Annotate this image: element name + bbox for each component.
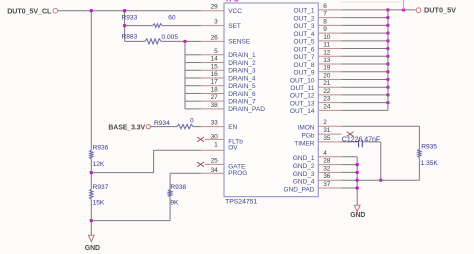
svg-text:9K: 9K	[170, 200, 179, 207]
svg-text:29: 29	[211, 4, 219, 11]
svg-text:DRAIN_5: DRAIN_5	[228, 83, 256, 90]
svg-text:PROG: PROG	[228, 170, 247, 177]
svg-text:DUT0_5V_CL: DUT0_5V_CL	[7, 7, 52, 15]
svg-text:GND_4: GND_4	[293, 179, 315, 186]
svg-text:22: 22	[323, 88, 331, 95]
svg-text:R936: R936	[93, 145, 109, 152]
svg-text:DRAIN_1: DRAIN_1	[228, 52, 256, 59]
svg-text:32: 32	[323, 165, 331, 172]
svg-text:OUT_8: OUT_8	[294, 62, 315, 69]
svg-text:TPS: TPS	[225, 0, 239, 3]
svg-text:36: 36	[323, 173, 331, 180]
svg-text:4: 4	[323, 150, 327, 157]
svg-text:GND_PAD: GND_PAD	[284, 186, 315, 193]
svg-text:16: 16	[211, 71, 219, 78]
svg-text:OUT_9: OUT_9	[294, 70, 315, 77]
svg-text:OUT_5: OUT_5	[294, 39, 315, 46]
svg-text:35: 35	[323, 135, 331, 142]
svg-text:R934: R934	[154, 120, 170, 127]
svg-text:34: 34	[211, 167, 219, 174]
svg-text:R937: R937	[93, 184, 109, 191]
svg-text:VCC: VCC	[228, 8, 242, 15]
svg-text:60: 60	[168, 15, 176, 22]
svg-text:19: 19	[323, 65, 331, 72]
svg-text:PGb: PGb	[301, 133, 314, 140]
svg-text:28: 28	[323, 158, 331, 165]
svg-text:37: 37	[323, 181, 331, 188]
svg-text:31: 31	[323, 127, 331, 134]
svg-text:17: 17	[211, 79, 219, 86]
svg-text:5: 5	[214, 48, 218, 55]
svg-text:13: 13	[323, 57, 331, 64]
svg-text:38: 38	[211, 102, 219, 109]
svg-text:OUT_12: OUT_12	[290, 93, 315, 100]
svg-text:10: 10	[323, 34, 331, 41]
svg-text:27: 27	[211, 94, 219, 101]
svg-text:12: 12	[323, 49, 331, 56]
svg-text:R938: R938	[170, 184, 186, 191]
svg-text:15: 15	[211, 63, 219, 70]
svg-text:DRAIN_6: DRAIN_6	[228, 91, 256, 98]
svg-text:14: 14	[211, 56, 219, 63]
svg-text:GND_1: GND_1	[293, 155, 315, 162]
svg-text:OUT_10: OUT_10	[290, 77, 315, 84]
svg-text:OUT_11: OUT_11	[290, 85, 314, 92]
svg-text:OUT_2: OUT_2	[294, 15, 315, 22]
svg-text:47nF: 47nF	[364, 137, 380, 144]
svg-text:OUT_1: OUT_1	[294, 8, 315, 15]
svg-text:DRAIN_3: DRAIN_3	[228, 68, 256, 75]
svg-text:OV: OV	[228, 145, 238, 152]
svg-text:23: 23	[323, 96, 331, 103]
svg-text:SENSE: SENSE	[228, 39, 251, 46]
svg-text:GND: GND	[85, 245, 100, 252]
svg-text:DRAIN_4: DRAIN_4	[228, 75, 256, 82]
svg-text:DRAIN_7: DRAIN_7	[228, 98, 256, 105]
svg-text:9: 9	[323, 26, 327, 33]
svg-text:DRAIN_2: DRAIN_2	[228, 60, 256, 67]
svg-text:OUT_3: OUT_3	[294, 23, 315, 30]
svg-text:R933: R933	[122, 15, 138, 22]
svg-text:DRAIN_PAD: DRAIN_PAD	[228, 106, 265, 113]
svg-text:30: 30	[211, 133, 219, 140]
svg-text:12K: 12K	[93, 161, 105, 168]
svg-text:25: 25	[211, 158, 219, 165]
svg-text:IMON: IMON	[298, 125, 315, 132]
svg-text:8: 8	[323, 18, 327, 25]
svg-text:C1226: C1226	[342, 137, 363, 144]
svg-text:OUT_4: OUT_4	[294, 31, 315, 38]
svg-text:24: 24	[323, 103, 331, 110]
svg-text:18: 18	[211, 86, 219, 93]
svg-text:GND_2: GND_2	[293, 163, 315, 170]
svg-text:TIMER: TIMER	[294, 140, 315, 147]
svg-text:GND_3: GND_3	[293, 171, 315, 178]
svg-text:2: 2	[323, 119, 327, 126]
svg-text:GND: GND	[350, 212, 365, 219]
svg-text:BASE_3.3V: BASE_3.3V	[108, 124, 145, 131]
svg-text:0: 0	[190, 118, 194, 125]
svg-text:15K: 15K	[93, 200, 105, 207]
svg-text:7: 7	[323, 11, 327, 18]
svg-text:OUT_13: OUT_13	[290, 100, 315, 107]
svg-text:OUT_7: OUT_7	[294, 54, 315, 61]
svg-text:EN: EN	[228, 124, 237, 131]
svg-text:21: 21	[323, 80, 331, 87]
svg-text:33: 33	[211, 120, 219, 127]
svg-text:TPS24751: TPS24751	[225, 199, 257, 206]
svg-text:3: 3	[214, 19, 218, 26]
svg-text:26: 26	[211, 34, 219, 41]
svg-text:DUT0_5V: DUT0_5V	[424, 6, 456, 15]
svg-text:OUT_6: OUT_6	[294, 46, 315, 53]
svg-text:SET: SET	[228, 23, 241, 30]
svg-text:0.005: 0.005	[162, 34, 179, 41]
svg-text:1.35K: 1.35K	[421, 160, 439, 167]
svg-text:6: 6	[323, 3, 327, 10]
svg-text:OUT_14: OUT_14	[290, 108, 315, 115]
svg-text:1: 1	[214, 141, 218, 148]
svg-text:R883: R883	[122, 34, 138, 41]
svg-text:11: 11	[323, 42, 330, 49]
svg-text:R935: R935	[421, 143, 437, 150]
svg-text:20: 20	[323, 72, 331, 79]
